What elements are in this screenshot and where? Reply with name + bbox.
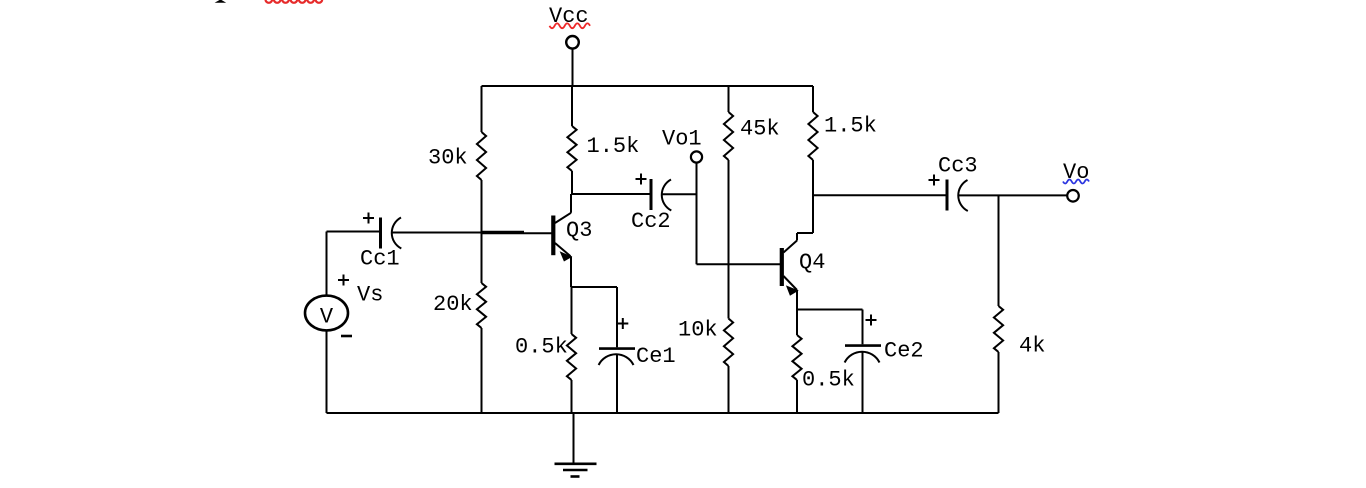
svg-text:1.5k: 1.5k (587, 134, 640, 159)
wire 0.5k to bottom rail (796, 380, 798, 413)
svg-text:Q3: Q3 (566, 218, 592, 243)
cropped red squiggle top-left (266, 0, 323, 3)
svg-text:10k: 10k (678, 318, 718, 343)
resistor R 0.5k (Q3 emitter) (567, 334, 576, 380)
svg-text:Q4: Q4 (799, 250, 825, 275)
resistor R 30k (477, 132, 486, 180)
wire bold Q3 base stub (482, 231, 525, 234)
svg-text:0.5k: 0.5k (802, 368, 855, 393)
resistor R 1.5k (stage 1 collector) (567, 126, 576, 171)
svg-text:V: V (320, 305, 334, 330)
wire 45k column from rail (728, 86, 730, 112)
svg-text:0.5k: 0.5k (515, 335, 568, 360)
polarity plus of Ce1 (617, 318, 628, 329)
svg-text:45k: 45k (740, 117, 780, 142)
svg-text:Cc1: Cc1 (360, 247, 400, 272)
svg-text:Vo1: Vo1 (662, 127, 702, 152)
wire base node to 20k and down to bottom rail (481, 233, 483, 414)
svg-text:20k: 20k (433, 292, 473, 317)
svg-text:Cc2: Cc2 (631, 209, 671, 234)
transistor Q4 (782, 233, 798, 310)
wire 1.5k to Q3 collector node (571, 171, 573, 194)
wire left bias column upper (481, 86, 483, 132)
svg-text:30k: 30k (428, 146, 468, 171)
transistor Q3 (553, 194, 571, 287)
cropped text fragment top-left (215, 0, 227, 3)
wire Q4 collector to Cc3 (813, 194, 947, 196)
wire emitter node down (796, 310, 798, 336)
wire 1.5k to Q4 collector node (797, 160, 813, 233)
resistor R 4k (994, 306, 1003, 352)
wire bottom rail (327, 412, 999, 414)
svg-text:4k: 4k (1019, 334, 1045, 359)
svg-text:Ce2: Ce2 (884, 339, 924, 364)
voltage source Vs (305, 232, 348, 414)
capacitor Cc1 (327, 218, 482, 249)
svg-text:Cc3: Cc3 (938, 154, 978, 179)
grammar squiggle under Vo (1063, 180, 1089, 184)
polarity plus of Cc2 (636, 174, 647, 185)
svg-text:Vs: Vs (357, 283, 383, 308)
ground (555, 413, 597, 477)
resistor R 10k (724, 319, 733, 367)
wire 30k to base node (481, 180, 483, 233)
polarity plus of Ce2 (866, 315, 877, 326)
resistor R 20k (477, 283, 486, 328)
node Vo terminal (1067, 190, 1079, 202)
polarity plus of Cc1 (363, 213, 374, 224)
wire Q4 emitter node to Ce2 (797, 309, 863, 311)
polarity plus of Vs (338, 275, 349, 286)
wire base stub to Q3 (524, 232, 552, 234)
spellcheck squiggle under Vcc (550, 23, 591, 28)
wire 4k column (998, 195, 1000, 306)
svg-text:Ce1: Ce1 (636, 344, 676, 369)
node Vo1 terminal (691, 151, 702, 264)
resistor R 0.5k (Q4 emitter) (792, 335, 801, 380)
wire Q4 base line (697, 263, 781, 265)
polarity minus of Vs (341, 335, 352, 338)
wire emitter node down (571, 287, 573, 334)
capacitor Cc3 (947, 180, 1067, 212)
wire 0.5k to bottom rail (571, 380, 573, 413)
resistor R 1.5k (stage 2 collector) (808, 112, 817, 160)
wire 1.5k column from rail (571, 86, 573, 126)
capacitor Ce1 (599, 287, 635, 413)
polarity plus of Cc3 (929, 175, 940, 186)
resistor R 45k (724, 112, 733, 160)
wire Q3 emitter node to Ce1 (571, 286, 617, 288)
wire 45k to base node (728, 160, 730, 264)
wire 10k to bottom rail (728, 366, 730, 413)
capacitor Ce2 (845, 310, 881, 414)
wire base node to 10k (728, 264, 730, 318)
capacitor Cc2 (572, 179, 697, 211)
wire top rail (482, 85, 814, 87)
svg-text:1.5k: 1.5k (824, 114, 877, 139)
node Vcc terminal (566, 36, 579, 86)
wire 4k to bottom rail (998, 352, 1000, 413)
wire second 1.5k column from rail (812, 86, 814, 112)
